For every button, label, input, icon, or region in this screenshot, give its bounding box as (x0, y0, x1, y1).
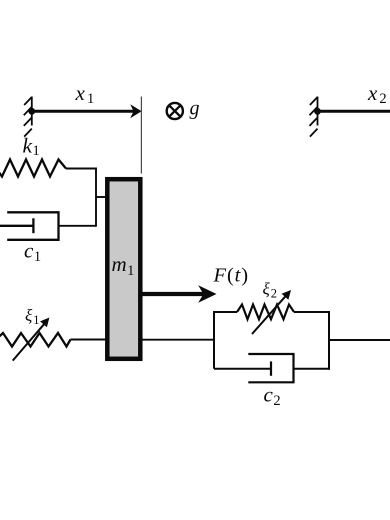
damper c2 cylinder (248, 354, 293, 382)
damper c2 piston plate (270, 361, 272, 375)
coordinate arrow x2 (318, 110, 390, 113)
svg-text:g: g (190, 98, 200, 120)
wire vertical bus (95, 168, 97, 227)
measurement reference line x1 (140, 97, 142, 174)
wire c2 to right edge (294, 368, 331, 370)
node dot x2 origin (314, 108, 321, 115)
adjustment arrow xi1 (13, 318, 50, 361)
wire stub bus to mass (96, 196, 106, 198)
wire top branch right (294, 311, 330, 313)
gravity symbol g (into page) (167, 103, 183, 119)
damper c1 piston plate (32, 218, 34, 233)
adjustment arrow xi2 (252, 290, 291, 334)
wire k1 to bus (66, 168, 97, 170)
spring k1 (0, 160, 66, 177)
force arrow F(t) (143, 285, 217, 303)
damper c1 cylinder (7, 212, 58, 240)
wire xi1 to mass (71, 339, 106, 341)
spring xi1 (adjustable) (0, 333, 71, 347)
right wall anchor (310, 97, 318, 137)
node dot x1 origin (28, 108, 35, 115)
wire output to x2 wall (329, 339, 390, 341)
wire c1 to bus (59, 225, 97, 227)
spring xi2 (adjustable) (237, 305, 294, 320)
parallel network left edge (213, 312, 215, 369)
wire mass to parallel network (143, 339, 215, 341)
coordinate arrow x1 (32, 104, 142, 118)
mass m1 (107, 179, 140, 359)
left wall anchor (24, 97, 32, 137)
parallel network right edge (328, 311, 330, 370)
damper c2 piston rod (214, 368, 271, 370)
svg-text:F(t): F(t) (213, 265, 250, 287)
wire top branch left (213, 311, 237, 313)
damper c1 piston rod (0, 225, 33, 227)
